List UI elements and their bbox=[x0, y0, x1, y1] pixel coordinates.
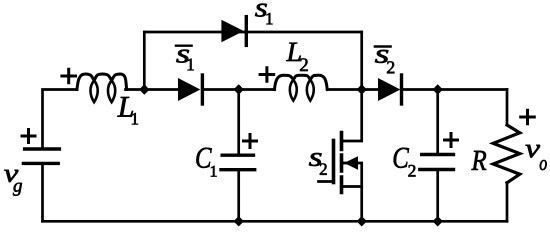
wire: right branch vertical bottom bbox=[506, 183, 509, 222]
wire: main rail from L2 to anode of diode s2bar bbox=[328, 88, 378, 91]
wire: left branch from source vg up and right to L1 bbox=[43, 90, 77, 149]
capacitor C2 top plate bbox=[422, 153, 454, 156]
node junction at riser / drain / L2 bbox=[357, 84, 367, 94]
inductor L2 bbox=[275, 75, 328, 89]
wire: main rail from s2bar cathode to top-right corner bbox=[402, 88, 508, 91]
svg-text:1: 1 bbox=[265, 9, 274, 28]
svg-text:2: 2 bbox=[299, 55, 309, 76]
wire: bottom rail bbox=[43, 220, 508, 223]
svg-text:o: o bbox=[539, 151, 547, 175]
plus polarity at L2 bbox=[260, 68, 274, 82]
node on bottom rail at C2 bbox=[433, 216, 443, 226]
wire: main rail from s1bar cathode to L2 bbox=[202, 88, 274, 91]
overline of label s1bar bbox=[176, 45, 192, 47]
inductor L1 bbox=[77, 74, 127, 90]
MOSFET s2 drain wire bbox=[343, 90, 362, 142]
node junction at C1 top bbox=[234, 84, 244, 94]
wire: C1 branch vertical bottom bbox=[237, 170, 240, 222]
svg-text:g: g bbox=[13, 176, 23, 197]
MOSFET s2 channel bar segments bbox=[340, 133, 344, 193]
svg-text:2: 2 bbox=[386, 57, 395, 77]
svg-text:1: 1 bbox=[209, 163, 217, 180]
diode s2bar on main rail bbox=[378, 78, 400, 101]
wire: vertical from top branch down to node C bbox=[360, 32, 363, 90]
diode s1 on top branch bbox=[221, 20, 243, 42]
MOSFET s2 body connection wire bbox=[343, 163, 362, 187]
voltage source vg top plate bbox=[25, 147, 60, 150]
svg-text:2: 2 bbox=[408, 160, 417, 180]
wire: vertical riser from node to top branch bbox=[143, 32, 146, 90]
overline of label s2bar bbox=[375, 45, 391, 47]
MOSFET s2 body arrow bbox=[344, 156, 358, 170]
plus polarity at C2 bbox=[445, 134, 458, 147]
wire: main rail from L1 to anode of diode s1bar bbox=[126, 88, 179, 91]
wire: right branch vertical top to resistor bbox=[506, 90, 509, 126]
capacitor C1 top plate bbox=[222, 153, 253, 156]
wire: C2 branch vertical bottom bbox=[436, 170, 439, 222]
svg-text:1: 1 bbox=[130, 109, 139, 128]
resistor R zigzag bbox=[493, 125, 520, 183]
svg-text:v: v bbox=[525, 133, 540, 163]
node on bottom rail at C1 bbox=[234, 216, 244, 226]
plus polarity at C1 bbox=[244, 135, 257, 148]
capacitor C1 bottom plate bbox=[221, 168, 255, 171]
wire: C1 branch vertical top bbox=[237, 90, 240, 154]
wire: C2 branch vertical top bbox=[436, 90, 439, 153]
wire: left branch vertical below source vg bbox=[41, 163, 44, 221]
wire: MOSFET source down to bottom rail bbox=[360, 187, 363, 222]
MOSFET s2 source stub bbox=[343, 185, 362, 188]
MOSFET s2 gate lead bbox=[319, 180, 333, 183]
plus polarity at vo bbox=[521, 110, 535, 124]
node junction at C2 top bbox=[433, 84, 443, 94]
plus polarity at L1 bbox=[62, 69, 76, 83]
svg-text:R: R bbox=[471, 145, 487, 177]
diode s1bar on main rail bbox=[178, 78, 200, 101]
capacitor C2 bottom plate bbox=[420, 168, 454, 171]
plus polarity at vg bbox=[22, 130, 35, 143]
node on bottom rail at MOSFET source bbox=[357, 216, 367, 226]
MOSFET s2 gate bar bbox=[332, 141, 336, 183]
svg-text:1: 1 bbox=[186, 54, 195, 74]
svg-text:2: 2 bbox=[319, 160, 328, 179]
node junction after L1 bbox=[139, 84, 149, 94]
wire: top branch horizontal bbox=[144, 31, 361, 34]
voltage source vg bottom plate bbox=[23, 162, 58, 165]
